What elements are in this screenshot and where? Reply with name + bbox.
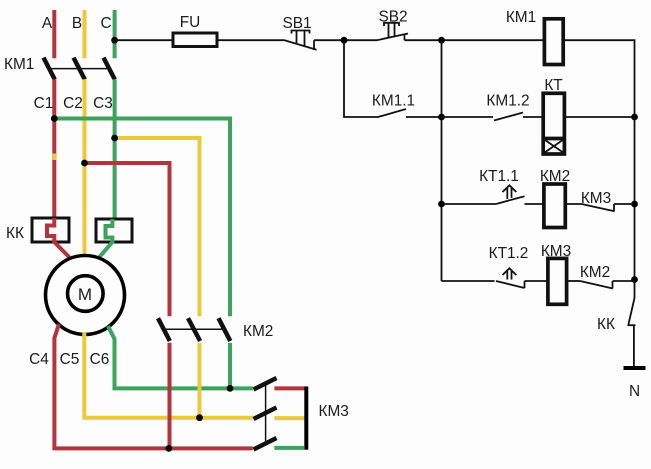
svg-text:B: B (72, 15, 82, 32)
svg-text:М: М (78, 285, 92, 304)
wire green KM2 lower leg (228, 343, 232, 389)
svg-text:N: N (629, 383, 640, 400)
wire row3 from bus (442, 203, 497, 205)
contact KM1.2 (494, 113, 523, 121)
wire yellow KM2 lower leg (198, 343, 202, 418)
svg-text:КМ3: КМ3 (541, 243, 571, 260)
wire SB2 to KM1 coil (405, 39, 545, 41)
node right bus row4 (631, 276, 638, 283)
wire green branch from C1 node to KM2 (54, 119, 230, 317)
node junction after SB2 (438, 37, 445, 44)
KM1 contact linkage (49, 68, 110, 70)
svg-text:КМ3: КМ3 (319, 403, 349, 420)
svg-text:КМ2: КМ2 (580, 264, 610, 281)
node right bus row3 (631, 201, 638, 208)
wire yellow branch from C3 node to KM2 (115, 138, 200, 316)
contact KM1.1 (377, 109, 406, 117)
svg-text:КМ1: КМ1 (506, 9, 536, 26)
contact KK (NC thermal) (628, 298, 636, 366)
wire phase B (yellow) top (83, 10, 87, 58)
node junction C1-green (51, 115, 58, 122)
svg-text:C5: C5 (60, 351, 80, 368)
svg-text:КМ2: КМ2 (540, 168, 570, 185)
coil KM1 (544, 19, 563, 65)
wire KM1.1 to bus (406, 116, 442, 118)
KM3 star bar (304, 387, 308, 450)
contactor KM1 main contacts (44, 58, 115, 80)
wire red KM2 lower leg (168, 343, 172, 449)
contact KM2 (NC) (580, 281, 613, 289)
node bus row3 (438, 201, 445, 208)
wire red branch from C2 node to KM2 (85, 163, 170, 316)
wire KT to right bus (564, 116, 634, 118)
wire right bus (634, 117, 636, 298)
wire KM3 coil to KM2 contact (567, 280, 580, 282)
timer coil KT (543, 93, 564, 154)
wire KM1.2 to KT (523, 116, 543, 118)
svg-text:КТ: КТ (544, 77, 563, 94)
wire green KM3 right (274, 446, 304, 450)
wire left bus SB1 branch (344, 40, 377, 117)
contact KM3 (NC) (582, 204, 615, 211)
pushbutton SB2 (NO) (377, 23, 408, 40)
node junction C2-red (81, 160, 88, 167)
wire KM3 contact to bus (614, 203, 635, 205)
pushbutton SB1 (NC) (285, 31, 317, 50)
node junction C3-yellow (111, 135, 118, 142)
contact KT1.2 (time delay) (496, 268, 525, 288)
thermal relay KK heater left box (32, 218, 69, 242)
wire C6 (green) from motor to bottom (108, 326, 253, 388)
coil KM3 (548, 258, 567, 304)
contactor KM3 main contacts (254, 378, 277, 450)
svg-text:C6: C6 (90, 351, 110, 368)
node junction C-power (111, 37, 118, 44)
artifact yellow dash on red wire (52, 154, 56, 161)
wire C4 (red) from motor to bottom (54, 324, 252, 448)
coil KM2 (544, 184, 565, 228)
wire red KM3 right (274, 386, 305, 390)
node junction green-C6 (227, 385, 234, 392)
wire KM1 coil to right bus (563, 40, 634, 117)
wire KT1.2 to KM3 coil (525, 280, 548, 282)
wire power line to FU (115, 39, 173, 41)
fuse FU (173, 33, 217, 47)
svg-text:КМ1: КМ1 (4, 56, 34, 73)
svg-text:FU: FU (180, 14, 201, 31)
contactor KM2 main contacts (158, 318, 230, 341)
wire main control bus (441, 40, 443, 281)
wire C3 (green) vertical (113, 79, 117, 220)
svg-text:КМ1.2: КМ1.2 (486, 93, 529, 110)
KM2 contact linkage (163, 328, 222, 330)
node junction yellow-C5 (196, 414, 203, 421)
thermal relay KK heater right box (96, 219, 132, 242)
svg-text:КК: КК (6, 225, 24, 242)
node bus row2 (438, 114, 445, 121)
wire KM2 contact to bus (613, 280, 635, 282)
motor M inner circle (68, 276, 104, 312)
wire green heater zigzag (99, 219, 112, 258)
svg-text:A: A (42, 15, 53, 32)
wire yellow KM3 right (274, 416, 305, 420)
svg-text:КМ3: КМ3 (581, 190, 611, 207)
svg-text:C4: C4 (29, 351, 49, 368)
wire C1 (red) vertical (52, 79, 56, 219)
svg-text:C1: C1 (34, 95, 54, 112)
KM3 contact linkage (265, 384, 267, 444)
svg-text:C: C (100, 15, 111, 32)
wire phase A (red) top (52, 10, 56, 58)
wire C2 (yellow) vertical (83, 79, 87, 258)
wire KM2 coil to KM3 contact (565, 203, 581, 205)
terminal N bar (624, 366, 646, 370)
svg-text:КК: КК (597, 316, 615, 333)
wire SB1 to SB2 (314, 39, 377, 41)
contact KT1.1 (time delay) (496, 185, 524, 204)
wire row4 from bus (442, 280, 495, 282)
svg-text:SB1: SB1 (282, 15, 311, 32)
wire KT1.1 to KM2 coil (525, 203, 544, 205)
wire row2 to KM1.2 (442, 116, 494, 118)
node junction red-C4 (165, 445, 172, 452)
wire FU to SB1 (217, 39, 285, 41)
node right bus row2 (631, 114, 638, 121)
svg-text:КТ1.2: КТ1.2 (489, 245, 529, 262)
svg-text:КМ1.1: КМ1.1 (372, 93, 415, 110)
svg-text:C2: C2 (63, 95, 83, 112)
node junction after SB1 (341, 37, 348, 44)
svg-text:КМ2: КМ2 (243, 323, 273, 340)
wire C5 (yellow) from motor to bottom (84, 332, 253, 418)
motor M outer circle (46, 256, 125, 335)
svg-text:C3: C3 (93, 95, 113, 112)
svg-text:SB2: SB2 (378, 9, 407, 26)
svg-text:КТ1.1: КТ1.1 (479, 168, 519, 185)
wire red heater zigzag (47, 218, 70, 258)
wire phase C (green) top (113, 10, 117, 58)
